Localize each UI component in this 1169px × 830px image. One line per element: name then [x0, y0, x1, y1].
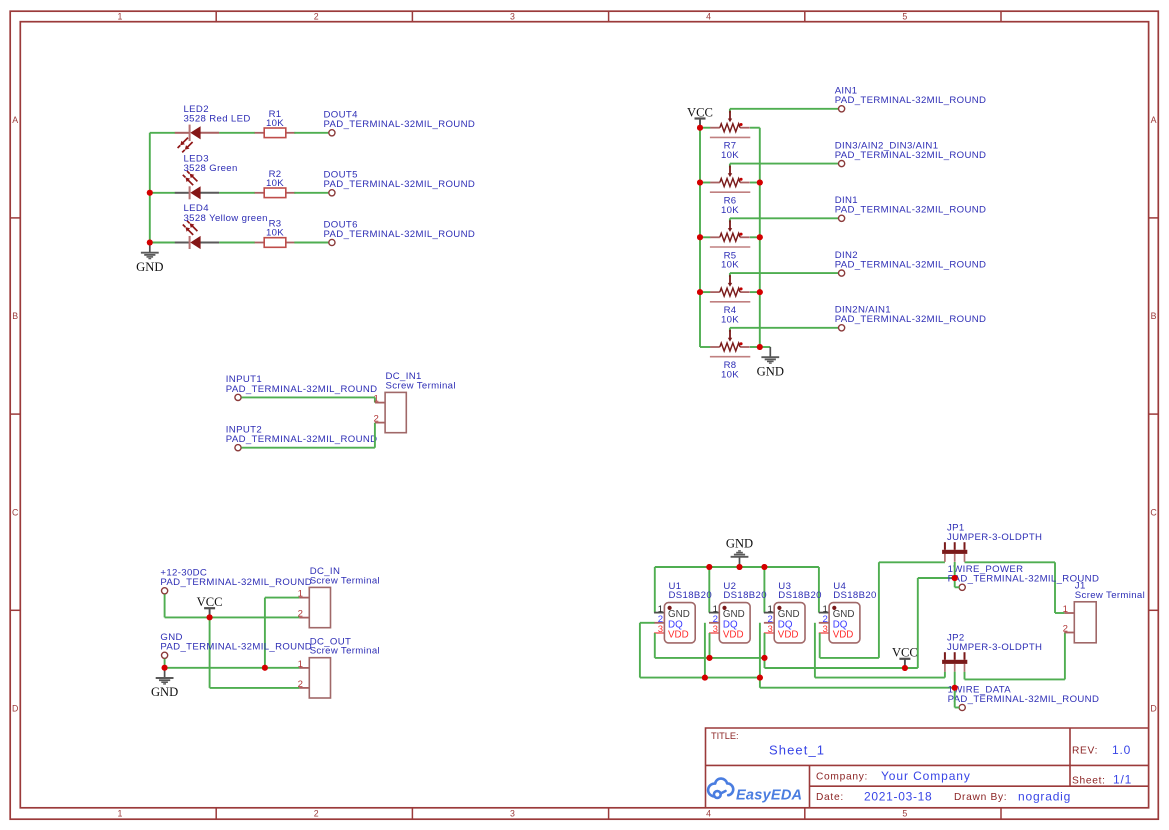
svg-text:Screw Terminal: Screw Terminal [1075, 590, 1145, 601]
IC U1 DS18B20 temperature sensor [654, 612, 664, 614]
svg-text:3: 3 [713, 624, 718, 635]
svg-text:PAD_TERMINAL-32MIL_ROUND: PAD_TERMINAL-32MIL_ROUND [835, 150, 987, 161]
svg-text:Sheet_1: Sheet_1 [769, 743, 825, 758]
junction right rail [757, 344, 763, 350]
pad DOUT4 [329, 130, 335, 136]
wire rail to LED2 [150, 132, 175, 134]
svg-text:3: 3 [510, 12, 515, 22]
svg-text:B: B [12, 311, 18, 321]
svg-text:DS18B20: DS18B20 [723, 590, 767, 601]
svg-text:GND: GND [726, 537, 753, 551]
EasyEDA logo [708, 779, 733, 798]
svg-text:3: 3 [768, 624, 773, 635]
svg-text:GND: GND [757, 364, 784, 378]
wire JP2 pin3 to J1 pin2 [964, 672, 966, 680]
svg-text:3528 Green: 3528 Green [184, 163, 238, 174]
svg-text:10K: 10K [721, 260, 739, 271]
wire R6 to right rail [750, 182, 760, 184]
pad DOUT6 [329, 239, 335, 245]
wire R1 to pad [294, 132, 328, 134]
junction right rail [757, 180, 763, 186]
svg-text:DS18B20: DS18B20 [669, 590, 713, 601]
svg-text:2021-03-18: 2021-03-18 [864, 789, 932, 803]
jumper JP2 JUMPER-3-OLDPTH [944, 652, 946, 660]
svg-text:1: 1 [298, 589, 303, 600]
wire VCC horizontal to DC_IN.2 [165, 616, 300, 618]
svg-text:nogradig: nogradig [1018, 789, 1071, 803]
svg-text:1: 1 [118, 12, 123, 22]
wire R4 to right rail [750, 291, 760, 293]
ground GND (ladder) [769, 347, 771, 357]
svg-text:D: D [12, 704, 18, 714]
wire tap DIN2 [730, 272, 838, 274]
svg-text:TITLE:: TITLE: [711, 731, 739, 741]
junction GND flag [737, 564, 743, 570]
junction left rail [697, 180, 703, 186]
pad DIN3/AIN2_DIN3/AIN1 [839, 161, 845, 167]
wire INPUT2 rise [374, 423, 376, 448]
junction GND bus U3 [761, 564, 767, 570]
svg-text:1: 1 [373, 394, 378, 405]
wire DQ lower line to JP2 [760, 687, 955, 689]
svg-text:VCC: VCC [892, 646, 918, 660]
svg-text:1: 1 [118, 809, 123, 819]
svg-text:JUMPER-3-OLDPTH: JUMPER-3-OLDPTH [947, 642, 1042, 653]
ground GND (LED rail) [149, 243, 151, 253]
wire riser to 1WIRE_POWER [917, 578, 919, 668]
svg-text:DS18B20: DS18B20 [833, 590, 877, 601]
junction left rail [697, 289, 703, 295]
svg-text:10K: 10K [266, 178, 284, 189]
pad 1WIRE_POWER [959, 584, 965, 590]
wire GND pad down [164, 659, 166, 668]
wire rail to R4 [700, 291, 710, 293]
junction 1WIRE_POWER [952, 575, 958, 581]
svg-text:1: 1 [298, 659, 303, 670]
svg-text:Sheet:: Sheet: [1072, 775, 1106, 786]
connector DC_OUT (Screw Terminal) [299, 667, 309, 669]
wire LED4 to resistor [219, 242, 255, 244]
svg-text:GND: GND [151, 685, 178, 699]
wire R5 to right rail [750, 236, 760, 238]
svg-text:PAD_TERMINAL-32MIL_ROUND: PAD_TERMINAL-32MIL_ROUND [324, 119, 476, 130]
LED LED2 (3528 Red LED) [175, 132, 190, 134]
junction 1WIRE_POWER [952, 575, 958, 581]
svg-text:3528 Red LED: 3528 Red LED [184, 113, 251, 124]
connector J1 (Screw Terminal) [1064, 612, 1074, 614]
wire sensor GND pin riser [654, 567, 656, 613]
svg-text:C: C [12, 507, 19, 517]
resistor R3 [255, 242, 265, 244]
wire U4 VDD to JP1 [820, 657, 879, 659]
resistor R1 [255, 132, 265, 134]
wire U1 DQ stub [640, 622, 655, 624]
svg-text:PAD_TERMINAL-32MIL_ROUND: PAD_TERMINAL-32MIL_ROUND [226, 434, 378, 445]
svg-text:B: B [1151, 311, 1157, 321]
wire rail to R7 [700, 127, 710, 129]
wire to ladder ground [760, 346, 771, 348]
wire sensor GND pin riser [818, 567, 820, 613]
svg-text:3528 Yellow green: 3528 Yellow green [184, 213, 268, 224]
junction DQ bus U3 [757, 675, 763, 681]
wire INPUT1 to DC_IN1.1 [242, 396, 375, 398]
wire U2 VDD drop [709, 633, 711, 658]
svg-text:PAD_TERMINAL-32MIL_ROUND: PAD_TERMINAL-32MIL_ROUND [324, 179, 476, 190]
svg-text:10K: 10K [721, 369, 739, 380]
svg-text:1/1: 1/1 [1113, 773, 1132, 787]
svg-text:EasyEDA: EasyEDA [736, 788, 802, 804]
svg-text:4: 4 [706, 12, 711, 22]
svg-text:2: 2 [298, 609, 303, 620]
svg-text:VDD: VDD [668, 630, 689, 641]
svg-text:GND: GND [668, 609, 690, 620]
wire R8 to right rail [750, 346, 760, 348]
svg-text:3: 3 [822, 624, 827, 635]
svg-text:PAD_TERMINAL-32MIL_ROUND: PAD_TERMINAL-32MIL_ROUND [835, 260, 987, 271]
VCC net flag (ladder) [699, 119, 701, 128]
junction left rail [697, 234, 703, 240]
svg-text:Screw Terminal: Screw Terminal [386, 380, 456, 391]
wire R2 to pad [294, 192, 328, 194]
svg-text:1.0: 1.0 [1112, 743, 1131, 757]
wire U4 VDD drop [819, 633, 821, 658]
wire U3 DQ drop [759, 623, 761, 688]
wire sensor GND pin riser [708, 567, 710, 613]
svg-text:1: 1 [1063, 604, 1068, 615]
junction right rail [757, 234, 763, 240]
pad 1WIRE_DATA [959, 704, 965, 710]
svg-text:Screw Terminal: Screw Terminal [310, 646, 380, 657]
junction DC_OUT.1 [262, 665, 268, 671]
svg-text:JUMPER-3-OLDPTH: JUMPER-3-OLDPTH [947, 532, 1042, 543]
wire tap DIN3/AIN2_DIN3/AIN1 [730, 163, 838, 165]
svg-text:2: 2 [314, 809, 319, 819]
pad INPUT1 [235, 394, 241, 400]
wire left rail of ladder [699, 128, 701, 347]
IC U4 DS18B20 temperature sensor [819, 612, 829, 614]
svg-text:C: C [1150, 507, 1157, 517]
potentiometer R4 10K [710, 291, 720, 293]
junction right rail [757, 289, 763, 295]
svg-text:2: 2 [298, 679, 303, 690]
svg-text:GND: GND [136, 260, 163, 274]
svg-text:Screw Terminal: Screw Terminal [310, 575, 380, 586]
junction rail/LED4/GND [147, 240, 153, 246]
junction GND [162, 665, 168, 671]
wire VCC down to DC_OUT.2 [209, 617, 211, 688]
pad DIN2N/AIN1 [839, 325, 845, 331]
wire INPUT1 drop [374, 397, 376, 402]
wire +12-30DC down [164, 594, 166, 617]
potentiometer R5 10K [710, 236, 720, 238]
svg-text:GND: GND [833, 609, 855, 620]
svg-text:10K: 10K [266, 228, 284, 239]
IC U2 DS18B20 temperature sensor [709, 612, 719, 614]
pad AIN1 [839, 106, 845, 112]
svg-text:3: 3 [658, 624, 663, 635]
wire rail to R5 [700, 236, 710, 238]
wire sensor GND pin riser [763, 567, 765, 613]
pad INPUT2 [235, 445, 241, 451]
ground GND (sensor bus) [739, 557, 741, 567]
svg-text:10K: 10K [721, 315, 739, 326]
wire R3 to pad [294, 242, 328, 244]
wire U2 DQ drop [704, 623, 706, 678]
svg-text:GND: GND [778, 609, 800, 620]
potentiometer R7 10K [710, 127, 720, 129]
svg-text:10K: 10K [266, 118, 284, 129]
wire DC_IN.1 down [264, 598, 266, 668]
wire tap AIN1 [730, 108, 838, 110]
svg-text:PAD_TERMINAL-32MIL_ROUND: PAD_TERMINAL-32MIL_ROUND [160, 642, 312, 653]
wire to DC_OUT.2 [210, 687, 300, 689]
wire rail to R6 [700, 182, 710, 184]
junction DQ bus U2 [702, 675, 708, 681]
svg-text:Drawn By:: Drawn By: [954, 792, 1007, 803]
svg-text:VCC: VCC [197, 595, 223, 609]
svg-text:PAD_TERMINAL-32MIL_ROUND: PAD_TERMINAL-32MIL_ROUND [835, 205, 987, 216]
svg-text:REV:: REV: [1072, 746, 1098, 757]
svg-text:10K: 10K [721, 150, 739, 161]
junction VDD bus U2 [707, 655, 713, 661]
VCC net flag (DC section) [209, 608, 211, 617]
wire JP1 pin3 to J1 pin1 [965, 561, 1056, 563]
junction dots overlay [147, 125, 958, 691]
node LED common cathode rail [149, 133, 151, 243]
wire to JP1 pin2 [918, 577, 955, 579]
pad +12-30DC [162, 588, 168, 594]
wire GND bus over sensors [655, 566, 819, 568]
wire U3 VDD drop through [764, 633, 766, 668]
junction VDD bus U3 [762, 655, 768, 661]
ground GND (DC section) [164, 668, 166, 678]
pad DIN2 [839, 270, 845, 276]
svg-text:PAD_TERMINAL-32MIL_ROUND: PAD_TERMINAL-32MIL_ROUND [226, 384, 378, 395]
svg-text:A: A [12, 115, 18, 125]
svg-text:VCC: VCC [687, 105, 713, 119]
wire U1 DQ drop [639, 623, 641, 678]
svg-text:PAD_TERMINAL-32MIL_ROUND: PAD_TERMINAL-32MIL_ROUND [160, 577, 312, 588]
svg-text:GND: GND [723, 609, 745, 620]
connector DC_IN1 (Screw Terminal) [375, 402, 385, 404]
svg-text:VDD: VDD [778, 630, 799, 641]
wire DQ bus [640, 677, 760, 679]
svg-text:VDD: VDD [833, 630, 854, 641]
svg-text:Date:: Date: [816, 792, 844, 803]
pad GND pad [162, 652, 168, 658]
junction rail/LED3 [147, 190, 153, 196]
connector DC_IN (Screw Terminal) [299, 597, 309, 599]
junction VCC flag [902, 665, 908, 671]
wire DC_IN.1 [265, 597, 299, 599]
svg-text:PAD_TERMINAL-32MIL_ROUND: PAD_TERMINAL-32MIL_ROUND [835, 314, 987, 325]
wire U1 VDD drop [654, 633, 656, 658]
wire R7 to right rail [750, 127, 760, 129]
svg-text:PAD_TERMINAL-32MIL_ROUND: PAD_TERMINAL-32MIL_ROUND [835, 95, 987, 106]
pad DOUT5 [329, 190, 335, 196]
svg-text:2: 2 [314, 12, 319, 22]
resistor R2 [255, 192, 265, 194]
VCC net flag (sensors) [904, 659, 906, 668]
wire U4 DQ to JP2 pin1 [815, 677, 945, 679]
pad DIN1 [839, 215, 845, 221]
svg-text:Your Company: Your Company [881, 769, 971, 783]
svg-text:Company:: Company: [816, 772, 868, 783]
wire VDD bus [655, 657, 765, 659]
svg-text:2: 2 [1063, 624, 1068, 635]
IC U3 DS18B20 temperature sensor [764, 612, 774, 614]
svg-text:PAD_TERMINAL-32MIL_ROUND: PAD_TERMINAL-32MIL_ROUND [324, 229, 476, 240]
svg-text:VDD: VDD [723, 630, 744, 641]
svg-text:10K: 10K [721, 205, 739, 216]
wire JP2 pin2 to pad 1WIRE_DATA [954, 672, 956, 708]
wire LED2 to resistor [219, 132, 255, 134]
wire JP1 pin2 to pad 1WIRE_POWER [954, 562, 956, 587]
wire right rail of ladder [759, 128, 761, 347]
wire LED3 to resistor [219, 192, 255, 194]
wire tap DIN2N/AIN1 [730, 327, 838, 329]
junction 1WIRE_DATA [952, 685, 958, 691]
wire tap DIN1 [730, 217, 838, 219]
svg-text:A: A [1151, 115, 1157, 125]
svg-text:5: 5 [902, 809, 907, 819]
potentiometer R8 10K [710, 346, 720, 348]
jumper JP1 JUMPER-3-OLDPTH [944, 542, 946, 550]
wire U4 DQ drop [814, 623, 816, 678]
svg-text:5: 5 [902, 12, 907, 22]
wire rail to LED4 [150, 242, 175, 244]
wire INPUT2 to DC_IN1.2 [242, 447, 375, 449]
title block [706, 728, 1149, 808]
wire rail to LED3 [150, 192, 175, 194]
svg-text:D: D [1150, 704, 1156, 714]
svg-text:4: 4 [706, 809, 711, 819]
wire rail to R8 [700, 346, 710, 348]
junction left rail [697, 125, 703, 131]
potentiometer R6 10K [710, 182, 720, 184]
svg-text:DS18B20: DS18B20 [778, 590, 822, 601]
svg-text:3: 3 [510, 809, 515, 819]
svg-text:PAD_TERMINAL-32MIL_ROUND: PAD_TERMINAL-32MIL_ROUND [948, 694, 1100, 705]
wire VCC line [765, 667, 918, 669]
junction GND bus U2 [706, 564, 712, 570]
LED LED4 (3528 Yellow green) [175, 242, 190, 244]
wire GND to DC_OUT.1 [165, 667, 300, 669]
junction VCC tap [207, 614, 213, 620]
svg-text:2: 2 [373, 414, 378, 425]
LED LED3 (3528 Green) [175, 192, 190, 194]
